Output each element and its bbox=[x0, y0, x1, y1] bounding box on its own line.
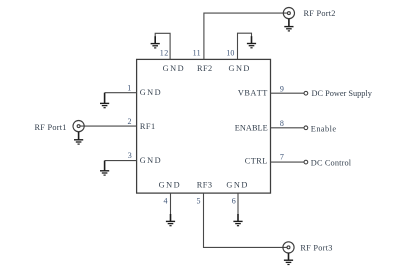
svg-text:2: 2 bbox=[128, 117, 132, 126]
coax connector RF Port2 bbox=[283, 8, 294, 19]
svg-text:9: 9 bbox=[280, 84, 284, 93]
terminal circle pin 7 bbox=[304, 160, 308, 164]
svg-text:12: 12 bbox=[160, 48, 169, 57]
svg-text:7: 7 bbox=[280, 153, 284, 162]
svg-text:Enable: Enable bbox=[311, 124, 337, 133]
svg-text:GND: GND bbox=[163, 64, 185, 73]
ground at pin 1 bbox=[100, 93, 109, 108]
svg-text:10: 10 bbox=[226, 48, 234, 57]
svg-text:RF Port2: RF Port2 bbox=[304, 9, 336, 18]
pin 6 wire (GND, bottom) bbox=[237, 193, 239, 215]
svg-text:DC Control: DC Control bbox=[311, 158, 352, 167]
svg-text:GND: GND bbox=[226, 181, 248, 190]
svg-text:RF Port3: RF Port3 bbox=[300, 244, 332, 253]
ground at pin 12 bbox=[151, 36, 160, 48]
svg-text:8: 8 bbox=[280, 119, 284, 128]
svg-text:CTRL: CTRL bbox=[245, 157, 268, 166]
pin 5 wire (RF3, bottom) bbox=[204, 193, 288, 247]
coax connector RF Port1 bbox=[73, 121, 84, 132]
svg-text:6: 6 bbox=[232, 197, 236, 206]
svg-text:RF2: RF2 bbox=[197, 64, 213, 73]
pin 1 wire (GND) bbox=[105, 92, 137, 94]
svg-text:RF Port1: RF Port1 bbox=[35, 123, 67, 132]
ground under RF Port3 connector bbox=[284, 253, 293, 264]
coax connector RF Port3 bbox=[283, 242, 294, 253]
ground at pin 10 bbox=[247, 36, 256, 48]
ground under RF Port2 connector bbox=[284, 19, 293, 31]
pin 2 wire (RF1) bbox=[80, 125, 137, 127]
terminal circle pin 9 bbox=[304, 91, 308, 95]
pin 10 wire (GND, top) bbox=[238, 33, 252, 59]
svg-text:4: 4 bbox=[164, 197, 168, 206]
svg-text:GND: GND bbox=[140, 156, 162, 165]
svg-text:RF1: RF1 bbox=[140, 122, 156, 131]
svg-text:GND: GND bbox=[159, 181, 181, 190]
pin 12 wire (GND, top) bbox=[155, 33, 170, 59]
svg-text:RF3: RF3 bbox=[197, 181, 213, 190]
terminal circle pin 8 bbox=[304, 126, 308, 130]
ground under RF Port1 connector bbox=[74, 132, 83, 144]
pin 9 wire (VBATT) bbox=[271, 92, 305, 94]
svg-text:ENABLE: ENABLE bbox=[235, 123, 268, 132]
svg-text:GND: GND bbox=[228, 64, 250, 73]
svg-text:GND: GND bbox=[140, 88, 162, 97]
pin 11 wire (RF2, top) bbox=[204, 13, 288, 59]
svg-text:DC Power Supply: DC Power Supply bbox=[312, 89, 373, 98]
pin 7 wire (CTRL) bbox=[271, 161, 305, 163]
pin 4 wire (GND, bottom) bbox=[170, 193, 172, 215]
svg-text:11: 11 bbox=[193, 48, 201, 57]
IC U1 body bbox=[137, 59, 271, 193]
svg-text:VBATT: VBATT bbox=[238, 89, 268, 98]
pin 8 wire (ENABLE) bbox=[271, 127, 305, 129]
ground at pin 6 bbox=[233, 214, 242, 226]
pin 3 wire (GND) bbox=[105, 160, 137, 162]
svg-text:3: 3 bbox=[128, 151, 132, 160]
svg-text:5: 5 bbox=[197, 197, 201, 206]
ground at pin 4 bbox=[166, 214, 175, 226]
ground at pin 3 bbox=[100, 161, 109, 176]
svg-text:1: 1 bbox=[127, 83, 131, 92]
